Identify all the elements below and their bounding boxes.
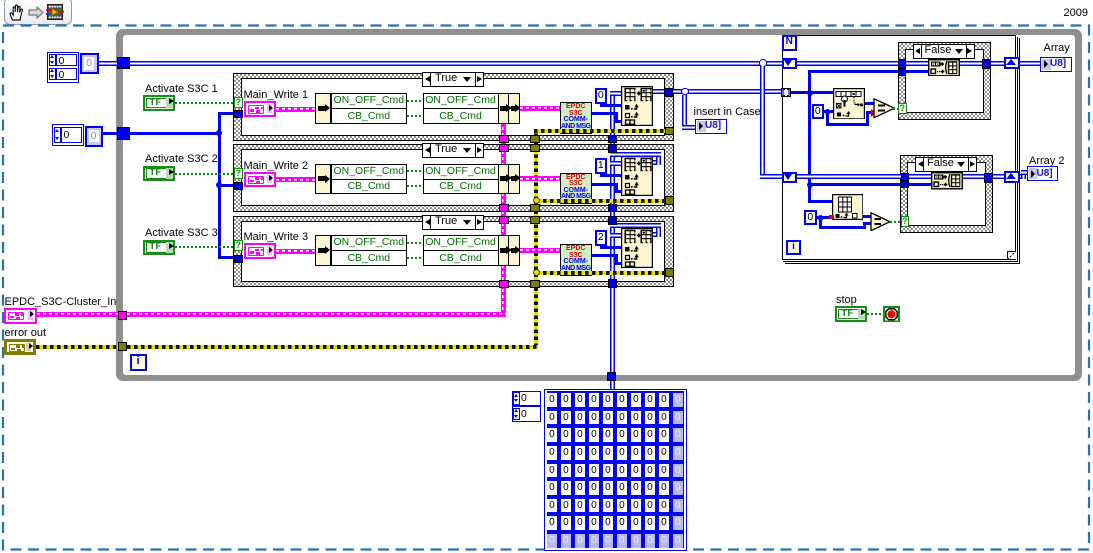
u8 wire to case A lower tunnel <box>808 70 906 73</box>
numeric constant 0 (B) <box>804 210 817 225</box>
label Array 2 <box>1029 155 1064 167</box>
wire array size B to equals <box>863 215 871 218</box>
junction circle (top wire) <box>759 59 767 67</box>
case 3: cluster wire terminal to unbundle <box>276 249 316 254</box>
case 2: bundle by name <box>423 164 499 195</box>
wire 0 under-route to equals B <box>819 217 822 229</box>
case 3: unbundle by name <box>315 235 331 266</box>
while loop border <box>116 29 1082 381</box>
2D wire tunnel1 to case A <box>797 61 899 66</box>
while loop condition terminal (stop sign) <box>883 306 900 323</box>
case 1: unbundle by name <box>315 93 331 124</box>
case 1: boolean wires unbundle to bundle <box>407 100 423 102</box>
while loop left tunnel (error) <box>118 342 127 351</box>
case A output tunnel <box>982 59 991 69</box>
case 1: bundle by name <box>423 93 499 124</box>
case structure Main_Write 1 frame <box>233 73 674 142</box>
while loop left tunnel (cluster) <box>118 311 127 320</box>
case 2 error wire to right tunnel <box>536 199 665 203</box>
cluster wire vertical (EPDC_S3C-Cluster_In) <box>501 124 506 316</box>
case B interior wires <box>909 174 931 179</box>
for loop border <box>782 35 1016 260</box>
2D array constant (top-left) <box>47 52 80 84</box>
case 2: left border tunnel (1D) <box>234 182 243 191</box>
year label 2009 <box>1058 7 1088 19</box>
case selector True (case 1) <box>422 72 484 87</box>
u8 vertical distribution <box>808 70 811 202</box>
label EPDC_S3C-Cluster_In <box>5 296 117 308</box>
array size node (B) <box>832 194 864 220</box>
wire index node A to equals <box>865 102 874 105</box>
u8 wire from [] tunnel <box>791 91 833 94</box>
case B selector False <box>915 157 977 172</box>
case A: insert into array node <box>928 59 960 77</box>
wire to Array indicator <box>1020 61 1040 66</box>
boolean control Activate S3C 3 <box>143 240 175 256</box>
case border tunnels for 2D vertical chain <box>608 135 617 144</box>
case 1: node output 2D wire to right tunnel <box>653 89 664 94</box>
case structure A (False) frame <box>898 42 991 120</box>
case 3: EPDC output wire <box>592 254 618 257</box>
case 3: 2D wire branch into node input <box>610 233 622 238</box>
case 2: numeric constant 1 <box>595 158 608 174</box>
case 1: cluster terminal Main_Write 1 <box>244 101 276 117</box>
case 3: bundle by name <box>423 235 499 266</box>
case A interior wires <box>906 61 928 66</box>
label insert in Case <box>694 106 761 118</box>
cluster wire to while tunnel <box>37 312 119 317</box>
boolean control Activate S3C 1 <box>143 95 175 111</box>
for loop auto-index input tunnel 2 <box>782 172 797 183</box>
while loop left tunnel (2D array) <box>117 57 130 69</box>
case 1: left border tunnel (1D) <box>234 110 243 119</box>
label stop <box>836 294 857 306</box>
case 2: 2D wire branch into node input <box>610 161 622 166</box>
error junction ring case 2 <box>533 197 540 204</box>
case 1: numeric constant 0 <box>595 88 608 104</box>
case 2: cluster wire bundle to EPDC <box>520 176 561 181</box>
case 2: label Main_Write 2 <box>244 160 309 172</box>
1D wire into diagram <box>130 132 219 135</box>
while loop iteration terminal i <box>130 354 147 371</box>
case A selector terminal ? <box>898 103 907 114</box>
label Activate S3C 1 <box>145 83 218 95</box>
u8 wire to case B lower tunnel <box>808 183 902 186</box>
case 1: Replace Array Subset node <box>621 86 653 126</box>
case 2: EPDC S3C COMMAND MSG subVI <box>560 173 592 205</box>
for loop i terminal <box>786 240 801 255</box>
boolean wire equals B to ? <box>890 221 901 223</box>
2D array cells <box>547 393 558 407</box>
case 2: boolean wires unbundle to bundle <box>407 170 423 172</box>
case selector True (case 3) <box>422 215 484 230</box>
case B selector terminal ? <box>901 216 910 227</box>
wire 0 to array size node B <box>817 216 832 219</box>
numeric constant 0 (A) <box>812 104 825 119</box>
for loop [] tunnel (insert in Case input) <box>781 88 791 97</box>
case 2: EPDC output wire <box>592 183 618 186</box>
case 1: wire constant to replace node <box>600 104 603 107</box>
1D array constant element <box>85 126 103 147</box>
case structure Main_Write 2 frame <box>233 144 674 212</box>
case 3: numeric constant 2 <box>595 230 608 246</box>
case 2: cluster terminal Main_Write 2 <box>244 172 276 188</box>
case 3: selector terminal ? <box>234 240 243 251</box>
case 3: cluster wire bundle to EPDC <box>520 248 561 253</box>
2D wire tunnel2 to case B <box>797 174 901 179</box>
case 3: label Main_Write 3 <box>244 231 309 243</box>
case 3: cluster terminal Main_Write 3 <box>244 243 276 259</box>
wire case B to for-loop output tunnel 2 <box>993 174 1005 179</box>
case 1: label Main_Write 1 <box>244 89 309 101</box>
label error out <box>5 327 47 339</box>
boolean control stop <box>835 306 867 322</box>
boolean wire to case 1 selector <box>175 102 234 104</box>
index array node (A) <box>833 88 865 120</box>
case 3: wire constant to replace node <box>600 246 603 249</box>
case border tunnels for cluster vertical <box>499 135 509 143</box>
case 1: EPDC S3C COMMAND MSG subVI <box>560 102 592 134</box>
case 1: 2D wire branch into node input <box>610 91 622 96</box>
case 3: node output loop to top tunnel <box>653 232 661 237</box>
wire to Array 2 indicator <box>1020 174 1023 179</box>
1D wire to while tunnel <box>103 132 117 135</box>
2D array constant element <box>80 53 99 75</box>
arrow tool icon <box>28 6 45 19</box>
boolean wire to case 2 selector <box>175 173 234 175</box>
branch to case 2 tunnel <box>218 184 236 187</box>
case 2: Replace Array Subset node <box>621 156 653 196</box>
case 2: wire constant to replace node <box>600 174 603 177</box>
wire case A to for-loop output tunnel <box>991 61 1005 66</box>
for loop auto-index input tunnel 1 <box>782 58 797 69</box>
case 3 error wire to right tunnel <box>536 271 665 275</box>
boolean control Activate S3C 2 <box>143 166 175 182</box>
array index spinner 0 <box>512 391 542 407</box>
2D wire constant to while tunnel <box>99 61 117 66</box>
array index spinner 1 <box>512 406 542 422</box>
case A selector False <box>913 44 975 59</box>
error wire vertical <box>534 129 538 347</box>
hand tool icon <box>8 3 26 22</box>
for loop output tunnel 2 <box>1004 171 1020 183</box>
error junction ring case 3 <box>533 269 540 276</box>
case 1 error wire to right tunnel <box>534 129 665 133</box>
2D array indicator frame <box>544 389 687 551</box>
case 2: selector terminal ? <box>234 168 243 179</box>
case 2: node output loop to top tunnel <box>653 160 661 165</box>
case B: insert into array node <box>931 172 963 190</box>
1D array constant (left) <box>52 124 84 146</box>
while loop left tunnel (1D array) <box>117 127 130 140</box>
2D wire branch down to insert-in-Case indicator <box>682 95 687 130</box>
case 1: cluster wire terminal to unbundle <box>276 107 316 112</box>
cluster indicator error out <box>4 339 36 355</box>
for loop corner fold <box>1007 251 1016 260</box>
label Activate S3C 2 <box>145 153 218 165</box>
case 3: left border tunnel (1D) <box>234 255 243 264</box>
boolean wire equals A to ? <box>893 108 899 110</box>
long 2D wire across top <box>130 61 760 66</box>
equals node A <box>873 98 896 119</box>
case structure Main_Write 3 frame <box>233 216 674 288</box>
boolean wire to case 3 selector <box>175 246 234 248</box>
boolean wire stop to loop condition <box>867 313 883 315</box>
branch to case 1 tunnel <box>218 112 236 115</box>
case 3: Replace Array Subset node <box>621 228 653 268</box>
case 3: boolean wires unbundle to bundle <box>407 242 423 244</box>
coercion red dot (B) <box>829 215 834 220</box>
case B output tunnel <box>984 173 993 183</box>
for loop N terminal <box>782 35 798 51</box>
VI run icon <box>46 3 64 21</box>
indicator Array [U8] <box>1040 57 1072 72</box>
case 1 output tunnel (2D) <box>664 88 673 97</box>
case 2: unbundle by name <box>315 164 331 195</box>
case 2: cluster wire terminal to unbundle <box>276 177 316 182</box>
case selector True (case 2) <box>422 143 484 158</box>
case border tunnels for error vertical <box>530 135 540 143</box>
case 1: cluster wire bundle to EPDC <box>520 106 561 111</box>
case structure B (False) frame <box>900 155 993 233</box>
case 1: EPDC output wire <box>592 112 618 115</box>
indicator insert in Case [U8] <box>695 119 727 134</box>
case B input tunnels <box>901 173 909 182</box>
error wire to while tunnel <box>36 345 118 349</box>
wire 0 under-route to equals A <box>826 112 829 125</box>
junction circle (case1 out wire) <box>681 88 689 96</box>
indicator Array 2 [U8] <box>1027 166 1059 181</box>
coercion red arrow (A) <box>871 109 877 117</box>
2D array vertical wire through cases to array indicator <box>610 91 615 390</box>
branch to case 3 tunnel <box>218 256 236 259</box>
junction dot 1D <box>216 130 222 136</box>
label Activate S3C 3 <box>145 227 218 239</box>
cluster control EPDC_S3C-Cluster_In <box>4 308 37 324</box>
toolbar panel <box>4 0 72 25</box>
1D wire vertical distribution <box>218 112 221 259</box>
case 3: EPDC S3C COMMAND MSG subVI <box>560 244 592 276</box>
2D wire case1 to for loop tunnel [] <box>673 89 682 94</box>
case A input tunnels <box>898 59 906 69</box>
equals node B <box>870 212 891 232</box>
wire 0 to index node A <box>824 110 833 113</box>
label Array <box>1044 42 1070 54</box>
case 1: selector terminal ? <box>234 97 243 108</box>
u8 wire to index node 2 <box>808 200 832 203</box>
for loop output tunnel 1 <box>1004 57 1020 69</box>
cluster wire tunnel to vertical <box>127 312 506 317</box>
while loop bottom tunnel (2D array out) <box>607 372 616 381</box>
error wire tunnel to vertical <box>127 345 539 349</box>
2D wire vertical branch to second for-loop tunnel <box>760 66 765 179</box>
